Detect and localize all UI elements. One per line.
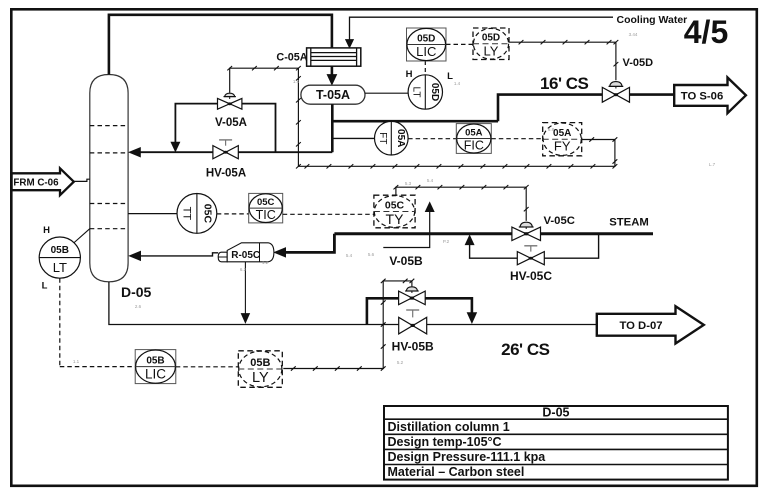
level relay LY 05D (473, 28, 509, 60)
svg-text:1.1: 1.1 (73, 359, 80, 364)
svg-text:L.7: L.7 (709, 162, 716, 167)
svg-text:3.44: 3.44 (629, 32, 638, 37)
product line horizontal (332, 120, 498, 123)
svg-text:P.2: P.2 (443, 239, 450, 244)
cooling water line (350, 17, 614, 41)
label V-05D (623, 57, 654, 69)
label Cooling Water (617, 14, 688, 26)
distillate line 16' CS (498, 95, 674, 122)
flow controller FIC 05A (456, 124, 491, 154)
svg-text:LT: LT (411, 87, 422, 98)
line column to TT (128, 213, 177, 215)
svg-text:05C: 05C (385, 199, 405, 211)
svg-text:V-05B: V-05B (389, 254, 423, 268)
column tray 3 (dashed) (90, 203, 128, 205)
arrow up into steam line (465, 236, 473, 245)
svg-text:6.2: 6.2 (240, 267, 247, 272)
svg-text:05D: 05D (482, 33, 500, 44)
svg-text:LY: LY (484, 43, 499, 58)
column tray 2 (dashed) (90, 152, 128, 154)
label H (LT-05D) (406, 69, 413, 80)
bottoms line (109, 282, 597, 325)
steam line to reboiler (285, 234, 334, 253)
svg-text:TO D-07: TO D-07 (619, 320, 662, 332)
svg-text:Material – Carbon steel: Material – Carbon steel (388, 465, 525, 479)
reflux bypass line (175, 104, 275, 153)
svg-text:05D: 05D (429, 83, 440, 101)
svg-text:FIC: FIC (464, 139, 484, 153)
bottoms bypass line (367, 298, 472, 324)
distillation column D-05 vessel (90, 75, 128, 282)
arrow into bottoms line (241, 314, 249, 323)
pointer line with up arrow (383, 209, 429, 248)
arrow into T-05A (327, 75, 336, 85)
svg-text:05C: 05C (257, 197, 275, 208)
flow transmitter FT 05A (375, 121, 409, 155)
svg-text:Design Pressure-111.1 kpa: Design Pressure-111.1 kpa (388, 450, 547, 464)
steam bypass line (470, 234, 599, 258)
faint size annotations (73, 32, 716, 365)
arrow into reboiler (275, 248, 286, 257)
arrow down into bottoms line (467, 313, 476, 323)
line T-05A to LT-05D (365, 92, 408, 94)
hand valve HV-05C (517, 246, 544, 265)
svg-text:L: L (42, 281, 48, 292)
arrow into column (reflux) (129, 148, 140, 157)
svg-text:LIC: LIC (416, 44, 436, 59)
svg-text:5.2: 5.2 (397, 360, 404, 365)
sheet number 4/5 (684, 14, 728, 50)
level transmitter LT 05B (39, 237, 80, 278)
LT-05B connection to column (74, 229, 90, 243)
svg-text:TY: TY (386, 211, 405, 227)
signal TT to TIC (dashed) (217, 213, 249, 215)
svg-text:V-05D: V-05D (623, 57, 654, 69)
off-page arrow TO D-07 (597, 306, 704, 343)
svg-text:FY: FY (554, 139, 571, 154)
level controller LIC 05D (407, 28, 447, 61)
svg-text:05A: 05A (553, 128, 571, 139)
svg-text:T-05A: T-05A (316, 88, 350, 102)
temperature transmitter TT 05C (177, 194, 217, 234)
svg-text:05B: 05B (51, 245, 69, 256)
condenser C-05A (307, 48, 361, 66)
feed arrow FRM C-06 (12, 168, 74, 195)
svg-text:05B: 05B (146, 355, 164, 366)
off-page arrow TO S-06 (674, 78, 746, 114)
signal LIC-05B to LY-05B (dashed) (176, 366, 239, 368)
label L (LT-05B) (42, 281, 48, 292)
level relay LY 05B (238, 351, 282, 388)
svg-text:1.4: 1.4 (454, 81, 461, 86)
tap line to FT (332, 137, 374, 139)
signal TY-05C to V-05C (394, 185, 529, 221)
signal LT-05B down (dashed) (59, 278, 61, 366)
svg-text:Distillation column 1: Distillation column 1 (388, 420, 510, 434)
svg-text:TO S-06: TO S-06 (681, 90, 724, 102)
svg-text:5.3: 5.3 (405, 181, 412, 186)
svg-text:HV-05B: HV-05B (392, 340, 434, 354)
level controller LIC 05B (135, 350, 176, 384)
svg-text:D-05: D-05 (121, 284, 152, 300)
svg-text:H: H (43, 225, 50, 236)
svg-text:D-05: D-05 (542, 406, 569, 420)
signal to LIC-05B (dashed) (60, 366, 135, 368)
equipment data table D-05 (384, 406, 728, 480)
svg-text:1.4: 1.4 (293, 79, 300, 84)
condenser outlet line (331, 66, 334, 77)
column tray 1 (dashed) (90, 125, 128, 127)
label 26 CS (501, 340, 549, 359)
control valve V-05C (512, 222, 541, 240)
reboiler R-05C (218, 243, 274, 262)
svg-text:HV-05C: HV-05C (510, 269, 552, 283)
svg-text:LIC: LIC (145, 367, 166, 382)
label H (LT-05B) (43, 225, 50, 236)
control valve V-05B (399, 287, 426, 305)
reflux drum T-05A (301, 85, 365, 104)
svg-text:05A: 05A (465, 127, 483, 138)
signal LIC-05D to LT-05D (dashed) (424, 61, 426, 75)
reflux line (139, 151, 332, 153)
signal LY-05D to V-05D (509, 40, 618, 80)
svg-text:4/5: 4/5 (684, 14, 728, 50)
overhead vapor line (109, 15, 332, 75)
svg-text:H: H (406, 69, 413, 80)
svg-text:C-05A: C-05A (276, 52, 307, 64)
label STEAM (609, 217, 649, 229)
signal LY-05B to V-05B (283, 279, 414, 371)
feed line into column (74, 179, 90, 181)
svg-text:05D: 05D (417, 33, 435, 44)
svg-text:STEAM: STEAM (609, 217, 649, 229)
label HV-05C (510, 269, 552, 283)
control valve V-05A (218, 93, 242, 109)
svg-text:FT: FT (377, 132, 388, 144)
flow relay FY 05A (543, 123, 582, 156)
reboiler return line (140, 253, 218, 256)
svg-text:5.4: 5.4 (346, 253, 353, 258)
signal LIC-05D to LY-05D (dashed) (446, 43, 473, 45)
signal FY-05A to V-05A (227, 66, 617, 169)
label C-05A (276, 52, 307, 64)
label V-05A (215, 117, 247, 129)
label V-05B (389, 254, 423, 268)
control valve V-05D (602, 82, 629, 103)
svg-text:TIC: TIC (256, 208, 276, 222)
svg-text:26' CS: 26' CS (501, 340, 549, 359)
svg-text:1.2: 1.2 (262, 260, 269, 265)
svg-text:Design temp-105°C: Design temp-105°C (388, 435, 502, 449)
svg-text:R-05C: R-05C (231, 250, 260, 261)
svg-text:HV-05A: HV-05A (206, 168, 246, 180)
label D-05 (121, 284, 152, 300)
svg-text:LT: LT (53, 260, 67, 275)
svg-text:05A: 05A (395, 129, 406, 147)
svg-text:16' CS: 16' CS (540, 74, 588, 93)
label HV-05A (206, 168, 246, 180)
svg-text:TT: TT (180, 207, 192, 221)
svg-text:V-05C: V-05C (544, 215, 575, 227)
hand valve HV-05B (399, 310, 427, 334)
level transmitter LT 05D (408, 75, 442, 109)
cooling water arrow into condenser (346, 40, 354, 48)
svg-text:LY: LY (252, 370, 269, 386)
svg-text:2.6: 2.6 (135, 304, 142, 309)
arrow into reflux line (171, 142, 179, 151)
svg-text:05C: 05C (201, 204, 213, 224)
label 16 CS (540, 74, 588, 93)
product line from T-05A (331, 104, 334, 152)
svg-text:Cooling Water: Cooling Water (617, 14, 688, 26)
svg-text:V-05A: V-05A (215, 117, 247, 129)
svg-text:5.4: 5.4 (427, 178, 434, 183)
label V-05C (544, 215, 575, 227)
temperature relay TY 05C (374, 195, 415, 228)
svg-text:6.8: 6.8 (548, 127, 555, 132)
reboiler drain line (244, 262, 246, 315)
arrow into column (reboiler return) (130, 251, 141, 260)
label HV-05B (392, 340, 434, 354)
svg-text:5.6: 5.6 (368, 252, 375, 257)
signal TIC to TY (dashed) (283, 213, 374, 215)
signal FIC to FY (dashed) (491, 138, 542, 140)
signal FT to FIC (dashed) (408, 138, 456, 140)
temperature controller TIC 05C (249, 193, 283, 223)
label L (LT-05D) (447, 71, 453, 82)
svg-text:05B: 05B (250, 357, 270, 369)
svg-text:FRM C-06: FRM C-06 (13, 178, 59, 189)
hand valve HV-05A (213, 140, 238, 159)
svg-text:L: L (447, 71, 453, 82)
steam line (334, 232, 653, 235)
up arrowhead (426, 203, 434, 212)
column tray 4 (dashed) (90, 228, 128, 230)
